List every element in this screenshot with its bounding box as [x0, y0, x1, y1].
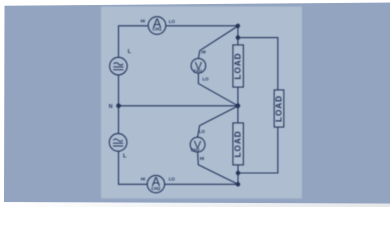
wire right branch top from dot t2	[238, 38, 278, 90]
wire bottom horizontal right of ammeter CH2	[165, 183, 238, 185]
resistor LOAD1 box	[233, 45, 243, 87]
wire voltmeter M1 LO lead to mid junction	[198, 73, 238, 106]
svg-text:LO: LO	[169, 176, 176, 181]
wire top horizontal right of ammeter CH1	[166, 25, 238, 27]
node N dot	[116, 104, 121, 109]
wire left rail between source V1 and node N	[118, 75, 120, 106]
voltmeter M1 circle CH1	[191, 58, 206, 73]
svg-text:HI: HI	[141, 177, 145, 182]
svg-text:LOAD: LOAD	[275, 95, 284, 122]
svg-text:LO: LO	[199, 129, 206, 134]
source V1 circle (line L top)	[110, 57, 128, 75]
svg-text:CH2: CH2	[151, 186, 161, 191]
svg-text:LO: LO	[203, 76, 210, 81]
wire left rail bottom and bottom horizontal to ammeter CH2	[119, 151, 148, 184]
ammeter U1 circle CH1	[148, 17, 166, 35]
resistor LOAD3 box	[274, 90, 283, 127]
svg-text:HI: HI	[141, 18, 145, 23]
source V2 symbol tilde	[113, 139, 122, 141]
junction dot b1	[236, 171, 240, 175]
svg-text:HI: HI	[200, 156, 204, 161]
svg-text:LOAD: LOAD	[234, 53, 243, 80]
junction dot t1	[236, 24, 240, 28]
svg-text:LO: LO	[169, 19, 176, 24]
svg-text:CH2: CH2	[191, 147, 200, 152]
wire LOAD1 bottom to mid junction	[237, 87, 239, 123]
source V2 circle (line L bottom)	[109, 134, 127, 152]
source V1 symbol tilde	[114, 63, 123, 65]
resistor LOAD2 box	[233, 123, 243, 165]
voltmeter M2 circle CH2	[190, 137, 205, 152]
source V1 symbol bars	[113, 66, 123, 68]
svg-text:HI: HI	[201, 50, 205, 55]
svg-text:CH1: CH1	[152, 27, 162, 32]
wire neutral horizontal N to mid junction	[119, 105, 238, 107]
junction dot mid	[236, 104, 241, 109]
wire left rail between node N and source V2	[118, 106, 120, 134]
svg-text:LOAD: LOAD	[234, 130, 243, 157]
ammeter U2 circle CH2	[147, 175, 164, 192]
source V2 symbol bars	[113, 142, 123, 144]
wire LOAD2 bottom to bottom junctions	[237, 165, 239, 185]
svg-text:N: N	[109, 104, 113, 110]
wire junction column top (dot t1 to LOAD1)	[237, 26, 239, 45]
junction dot t2	[236, 35, 240, 39]
wire top horizontal left of ammeter CH1	[119, 26, 149, 58]
wire voltmeter M2 LO lead to mid junction	[198, 106, 238, 137]
svg-text:CH1: CH1	[193, 69, 202, 74]
wire right branch bottom to dot b1	[238, 127, 278, 173]
junction dot b2	[236, 182, 240, 186]
schematic panel	[101, 7, 302, 199]
wire voltmeter M2 HI lead to bottom junction	[198, 152, 238, 184]
wire voltmeter M1 HI lead to top junction	[198, 26, 238, 58]
